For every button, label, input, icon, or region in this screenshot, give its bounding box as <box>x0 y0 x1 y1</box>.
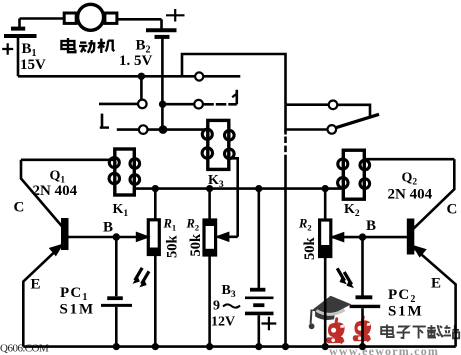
svg-text:PC1: PC1 <box>60 285 89 303</box>
svg-text:R2: R2 <box>298 217 312 233</box>
svg-text:B: B <box>366 218 376 234</box>
svg-text:C: C <box>447 202 458 218</box>
svg-text:2N 404: 2N 404 <box>33 183 78 199</box>
svg-text:K1: K1 <box>113 202 129 219</box>
svg-text:S1M: S1M <box>60 302 95 318</box>
svg-text:K3: K3 <box>208 173 224 190</box>
svg-text:R1: R1 <box>163 217 177 233</box>
svg-text:Q2: Q2 <box>402 171 418 188</box>
svg-text:E: E <box>431 276 441 292</box>
svg-text:1. 5V: 1. 5V <box>119 53 153 69</box>
svg-text:R2: R2 <box>186 217 200 233</box>
svg-text:C: C <box>14 200 25 216</box>
svg-text:B: B <box>103 220 113 236</box>
svg-text:15V: 15V <box>20 57 46 73</box>
svg-text:B3: B3 <box>222 283 236 300</box>
svg-text:50k: 50k <box>302 237 318 261</box>
svg-text:12V: 12V <box>211 315 235 330</box>
svg-text:S1M: S1M <box>388 304 423 320</box>
svg-text:PC2: PC2 <box>388 287 417 305</box>
svg-text:50k: 50k <box>188 233 204 257</box>
svg-text:9: 9 <box>213 299 220 314</box>
svg-text:E: E <box>31 277 41 293</box>
svg-text:2N 404: 2N 404 <box>388 187 433 203</box>
svg-text:K2: K2 <box>344 202 360 219</box>
svg-text:50k: 50k <box>165 235 181 259</box>
